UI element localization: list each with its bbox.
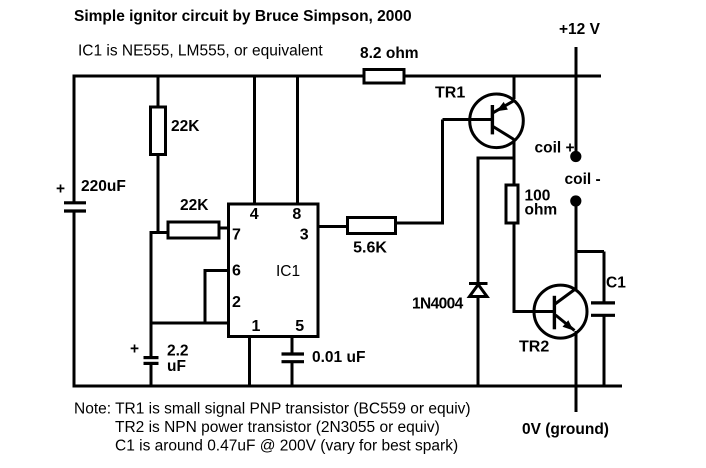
wire: TR2 emitter to ground — [575, 331, 578, 412]
svg-text:7: 7 — [232, 227, 241, 244]
svg-text:1N4004: 1N4004 — [412, 296, 464, 313]
wire: diode top lead — [477, 157, 480, 284]
wire: TR1 collector down — [513, 139, 516, 184]
wire: pin 1 wire — [248, 337, 251, 387]
TR1 emitter arrow (points toward base) — [496, 102, 508, 111]
wire: TR1 base wire — [443, 118, 492, 121]
node coil - — [570, 195, 581, 206]
svg-text:Note: TR1 is small signal PNP: Note: TR1 is small signal PNP transistor… — [74, 401, 471, 418]
svg-text:0.01 uF: 0.01 uF — [312, 349, 365, 366]
svg-text:Simple ignitor circuit by Bruc: Simple ignitor circuit by Bruce Simpson,… — [74, 8, 412, 25]
node coil + — [570, 151, 581, 162]
svg-text:IC1 is NE555, LM555, or equiva: IC1 is NE555, LM555, or equivalent — [78, 43, 323, 60]
capacitor 0.01uF plates — [282, 354, 305, 362]
IC IC1 555-timer body — [229, 204, 319, 337]
wire: left rail lower (220uF bottom to ground rail) — [73, 212, 76, 388]
svg-text:6: 6 — [232, 263, 241, 280]
svg-text:C1: C1 — [606, 275, 626, 292]
svg-text:coil +: coil + — [535, 140, 575, 157]
wire: pin 6 wire — [205, 269, 229, 272]
wire: 22K R top lead — [157, 76, 160, 108]
resistor 100 ohm — [506, 185, 518, 223]
wire: pin 6 stub down — [204, 269, 207, 323]
svg-text:22K: 22K — [171, 118, 200, 135]
wire: C1 bottom lead — [603, 316, 606, 386]
wire: 0.01uF bottom lead — [291, 363, 294, 387]
wire: +12V feed through coil + — [575, 47, 578, 152]
capacitor 220uF plates — [64, 203, 86, 211]
svg-text:ohm: ohm — [525, 202, 558, 219]
svg-text:1: 1 — [251, 318, 260, 335]
diode D1 1N4004 symbol — [469, 284, 488, 297]
wire: junction to 22K horizontal resistor left — [150, 231, 169, 234]
svg-text:uF: uF — [167, 358, 186, 375]
wire: pin 7 lead — [219, 227, 229, 230]
wire: top +12V rail — [73, 75, 602, 78]
wire: left branch down to pin2 node — [150, 231, 153, 325]
svg-text:22K: 22K — [180, 197, 209, 214]
svg-text:TR1: TR1 — [435, 85, 465, 102]
svg-text:TR2 is NPN power transistor (2: TR2 is NPN power transistor (2N3055 or e… — [115, 419, 440, 436]
svg-text:5: 5 — [295, 318, 304, 335]
wire: TR1 emitter to +12V rail — [513, 76, 516, 99]
wire: branch to C1 — [575, 250, 605, 253]
svg-text:3: 3 — [300, 227, 309, 244]
svg-text:IC1: IC1 — [276, 263, 300, 280]
wire: bottom ground rail — [73, 385, 623, 388]
transistor TR2 (NPN) — [534, 285, 587, 338]
svg-text:+: + — [130, 341, 139, 358]
resistor 22K (vertical, left) — [151, 107, 166, 155]
svg-text:2: 2 — [232, 294, 241, 311]
wire: 5.6K right lead — [397, 222, 444, 225]
wire: pin 2 wire — [150, 322, 229, 325]
wire: pin 8 wire — [296, 76, 299, 204]
wire: 2.2uF bottom lead — [150, 365, 153, 386]
resistor 22K (horizontal) — [168, 222, 219, 238]
wire: pin 3 lead — [318, 225, 346, 228]
wire: TR2 base wire — [513, 310, 555, 313]
svg-text:220uF: 220uF — [81, 178, 126, 195]
svg-text:+: + — [56, 181, 65, 198]
resistor 5.6K — [348, 218, 396, 234]
wire: 100 ohm bottom lead to TR2 base node — [513, 225, 516, 314]
wire: C1 top lead — [603, 252, 606, 302]
svg-text:8: 8 — [292, 206, 301, 223]
svg-text:8.2 ohm: 8.2 ohm — [360, 45, 419, 62]
wire: 22K R bottom lead — [157, 154, 160, 234]
svg-text:coil -: coil - — [565, 171, 601, 188]
svg-text:2.2: 2.2 — [167, 343, 189, 360]
svg-text:5.6K: 5.6K — [353, 240, 387, 257]
svg-text:TR2: TR2 — [519, 339, 549, 356]
wire: vertical up to TR1 base — [441, 120, 444, 225]
wire: coil - to TR2 collector — [575, 205, 578, 291]
capacitor C1 plates — [591, 303, 615, 315]
wire: pin 5 lead to 0.01uF — [291, 337, 294, 353]
transistor TR1 (PNP) — [470, 94, 524, 148]
svg-text:0V (ground): 0V (ground) — [522, 421, 609, 438]
wire: 2.2uF top lead — [150, 323, 153, 357]
wire: branch to diode — [478, 157, 515, 160]
wire: left rail upper (to 220uF top plate) — [73, 75, 76, 203]
svg-text:C1 is around 0.47uF @ 200V (va: C1 is around 0.47uF @ 200V (vary for bes… — [115, 438, 458, 455]
capacitor 2.2uF plates — [144, 358, 159, 364]
TR2 emitter arrow (points outward) — [563, 320, 574, 330]
svg-text:4: 4 — [250, 206, 259, 223]
svg-text:+12 V: +12 V — [559, 21, 601, 38]
wire: pin 4 wire — [253, 76, 256, 204]
resistor 8.2 ohm — [364, 70, 404, 84]
wire: diode bottom lead — [477, 296, 480, 386]
